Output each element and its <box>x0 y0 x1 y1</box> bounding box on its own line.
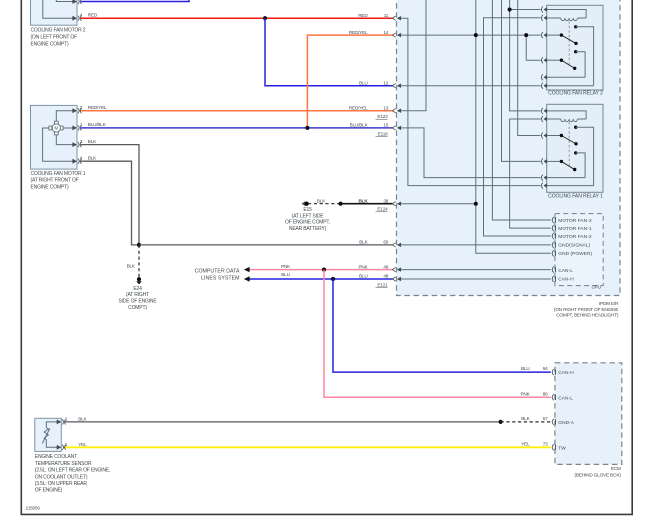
CPU pin name labels <box>558 218 592 283</box>
junction dot relay feeds <box>508 8 512 12</box>
svg-text:OF ENGINE COMPT,: OF ENGINE COMPT, <box>285 220 330 226</box>
IPDM pin 10 connector <box>392 126 401 130</box>
svg-text:3: 3 <box>80 139 83 144</box>
wire labels at ECM pins <box>520 366 548 446</box>
wire RED/YEL motor1 pin2 to IPDM pin 13 <box>81 110 393 112</box>
svg-text:COMPT): COMPT) <box>128 305 147 311</box>
junction dot on BLU/BLK wire <box>305 126 309 130</box>
wire BLU from motor2 pin3 up off page <box>81 0 189 2</box>
arrowhead computer data PNK <box>244 267 250 272</box>
svg-text:2: 2 <box>80 105 83 110</box>
svg-text:YEL: YEL <box>521 441 530 446</box>
svg-text:GND (POWER): GND (POWER) <box>558 251 592 257</box>
svg-text:(3.5L: ON UPPER REAR: (3.5L: ON UPPER REAR <box>35 481 88 487</box>
svg-text:215056: 215056 <box>26 506 41 511</box>
wire YEL sensor pin1 to ECM pin 73 <box>65 446 551 448</box>
ECM box (dashed) <box>555 363 622 478</box>
svg-text:BLK: BLK <box>359 240 368 245</box>
junction dot bus-pin14 <box>474 33 478 37</box>
svg-text:MOTOR FAN-3: MOTOR FAN-3 <box>558 218 592 224</box>
svg-text:60: 60 <box>383 240 388 245</box>
cooling fan relay 1 box <box>547 104 603 199</box>
relay1 contact return wires <box>547 178 594 186</box>
svg-text:PNK: PNK <box>281 264 291 269</box>
svg-text:RED: RED <box>358 13 368 18</box>
dashed BLK wire to ECM pin 67 <box>501 421 551 423</box>
cooling fan relay 2 box <box>547 5 603 96</box>
svg-text:BLU: BLU <box>521 366 530 371</box>
IPDM pin 12 connector <box>392 84 401 88</box>
svg-text:38: 38 <box>383 198 388 203</box>
ground E15 symbol <box>285 201 330 232</box>
internal wire relay2 coil to MOTOR FAN-2 <box>484 18 551 236</box>
junction dot BLU <box>331 277 335 281</box>
internal wire relay1 pin4 from top <box>502 0 541 161</box>
relay2 armature link dashed <box>568 21 570 66</box>
wire BLU branch to IPDM pin 12 <box>265 18 393 86</box>
svg-text:M: M <box>55 126 59 131</box>
svg-text:49: 49 <box>383 264 388 269</box>
motor1 pin 1 connector <box>72 125 81 130</box>
svg-text:RED/YEL: RED/YEL <box>349 30 368 35</box>
svg-text:(AT RIGHT: (AT RIGHT <box>126 292 149 298</box>
svg-text:RED: RED <box>88 13 98 18</box>
wire PNK computer data line to IPDM pin 49 <box>249 269 393 271</box>
junction dot bus-pin38 <box>474 202 478 206</box>
wire BLU/BLK motor1 pin1 to IPDM pin 10 <box>81 127 393 129</box>
svg-text:ENGINE COMPT): ENGINE COMPT) <box>31 42 69 48</box>
svg-text:94: 94 <box>543 366 548 371</box>
svg-text:MOTOR FAN-1: MOTOR FAN-1 <box>558 226 592 232</box>
svg-text:BLK: BLK <box>359 198 369 203</box>
svg-text:RED/YEL: RED/YEL <box>349 105 368 110</box>
svg-text:GND-A: GND-A <box>558 420 574 426</box>
wire BLK sensor pin2 to splice <box>65 421 501 423</box>
wire labels at motor pins <box>65 13 107 447</box>
svg-text:BLK: BLK <box>317 198 326 203</box>
IPDM pin 48 connector <box>392 277 401 281</box>
svg-text:(2.5L: ON LEFT REAR OF ENGINE,: (2.5L: ON LEFT REAR OF ENGINE, <box>35 468 110 474</box>
relay2 switch 2 <box>547 50 585 77</box>
computer data lines system label <box>195 268 240 281</box>
svg-text:BLK: BLK <box>78 416 87 421</box>
svg-text:COMPUTER DATA: COMPUTER DATA <box>195 268 240 274</box>
motor2 pin 3 connector <box>72 0 81 4</box>
dashed BLK wire from E15 to splice <box>308 203 341 205</box>
svg-text:COOLING FAN RELAY 1: COOLING FAN RELAY 1 <box>548 194 603 200</box>
svg-text:BLK: BLK <box>521 416 530 421</box>
svg-text:PNK: PNK <box>358 264 368 269</box>
svg-text:CAN-L: CAN-L <box>558 268 573 274</box>
IPDM E/R box (dashed) <box>397 0 621 318</box>
svg-text:(ON RIGHT FRONT OF ENGINE: (ON RIGHT FRONT OF ENGINE <box>554 307 618 312</box>
relay2 pin connectors <box>541 6 543 88</box>
svg-text:E121: E121 <box>377 283 388 288</box>
svg-text:E118: E118 <box>378 131 388 136</box>
cooling fan motor 1 box <box>31 105 86 190</box>
svg-text:GND(SIGNAL): GND(SIGNAL) <box>558 243 590 249</box>
relay1 switch 2 <box>547 151 585 177</box>
svg-text:TW: TW <box>558 445 566 451</box>
svg-text:48: 48 <box>383 274 388 279</box>
junction dot on RED wire <box>263 16 267 20</box>
svg-text:MOTOR FAN-2: MOTOR FAN-2 <box>558 234 592 240</box>
internal wire pin14 to relay2 pin3 <box>401 34 540 36</box>
svg-text:YEL: YEL <box>78 442 87 447</box>
relay1 coil circuit <box>547 111 586 122</box>
svg-text:SIDE OF ENGINE: SIDE OF ENGINE <box>118 299 157 305</box>
svg-text:(ON LEFT FRONT OF: (ON LEFT FRONT OF <box>31 35 78 41</box>
svg-text:ECM: ECM <box>611 466 621 471</box>
sensor pin 1 connector <box>57 445 66 450</box>
motor1 pin 2 connector <box>72 108 81 113</box>
svg-text:TEMPERATURE SENSOR: TEMPERATURE SENSOR <box>35 461 92 467</box>
svg-text:LINES SYSTEM: LINES SYSTEM <box>201 275 239 281</box>
CPU pin connectors <box>552 217 554 282</box>
wire RED motor2 pin4 to IPDM pin 11 <box>81 17 393 19</box>
svg-text:(BEHIND GLOVE BOX): (BEHIND GLOVE BOX) <box>575 472 622 477</box>
svg-text:ON COOLANT OUTLET): ON COOLANT OUTLET) <box>35 474 88 480</box>
IPDM pin 14 connector <box>392 33 401 37</box>
svg-text:86: 86 <box>543 391 548 396</box>
svg-text:IPDM E/R: IPDM E/R <box>599 301 619 306</box>
ground E24 symbol <box>118 277 157 311</box>
svg-text:CPU: CPU <box>591 285 601 290</box>
branch to relay2 pin1 <box>510 9 541 11</box>
wire BLK to IPDM pin 60 <box>139 244 393 246</box>
internal wire pin12 to relay2 pin6 <box>401 85 540 87</box>
wire PNK down to ECM CAN-L <box>324 270 551 398</box>
motor2 pin 4 connector <box>72 16 81 21</box>
dashed BLK wire to ground E24 <box>138 245 140 277</box>
junction dot relay2 pin4 branch <box>524 33 528 37</box>
motor M symbol M1 <box>49 121 63 135</box>
svg-text:CAN-H: CAN-H <box>558 370 574 376</box>
splice dot GND-A <box>499 420 503 424</box>
svg-text:10: 10 <box>383 123 388 128</box>
internal wire pin49 to CAN-L <box>401 269 551 271</box>
bold BLK wire to IPDM pin 38 <box>341 203 393 205</box>
junction dot BLK wires <box>137 243 141 247</box>
svg-text:COOLING FAN RELAY 2: COOLING FAN RELAY 2 <box>548 91 603 97</box>
sensor pin 2 connector <box>57 419 66 424</box>
internal wire pin11 to relay1 pin6 <box>401 18 540 185</box>
svg-text:CAN-L: CAN-L <box>558 395 573 401</box>
CPU box (dashed) <box>555 214 603 290</box>
svg-text:BLU/BLK: BLU/BLK <box>350 123 369 128</box>
relay2 coil circuit <box>547 10 586 21</box>
svg-text:(AT LEFT SIDE: (AT LEFT SIDE <box>292 213 325 219</box>
internal wire relay1 coil to MOTOR FAN-1 <box>510 119 551 228</box>
motor1 pin 3 connector <box>72 142 81 147</box>
ECM pin name labels <box>558 370 574 451</box>
svg-text:2: 2 <box>65 416 68 421</box>
IPDM pin 49 connector <box>392 267 401 271</box>
junction dot PNK <box>322 268 326 272</box>
svg-text:1: 1 <box>80 122 83 127</box>
motor1 pin 4 connector <box>72 159 81 164</box>
IPDM pin 38 connector <box>392 202 401 206</box>
connector codes E123 E118 E124 E121 underlined <box>377 114 388 287</box>
wire BLK motor1 pin3 down <box>81 145 139 245</box>
svg-text:(AT RIGHT FRONT OF: (AT RIGHT FRONT OF <box>31 178 79 184</box>
svg-text:ENGINE COOLANT: ENGINE COOLANT <box>35 454 77 460</box>
internal wire pin13 up off page <box>401 0 426 111</box>
svg-text:PNK: PNK <box>520 391 530 396</box>
thermistor symbol inside sensor <box>42 422 58 447</box>
svg-text:14: 14 <box>383 30 388 35</box>
internal wire feed to relay1 pin1 <box>510 0 541 111</box>
relay1 switch 1 <box>547 126 594 186</box>
wire BLU down to ECM CAN-H <box>333 279 551 372</box>
svg-text:COOLING FAN MOTOR 1: COOLING FAN MOTOR 1 <box>31 171 86 177</box>
svg-text:COOLING FAN MOTOR 2: COOLING FAN MOTOR 2 <box>31 28 86 34</box>
svg-text:BLU: BLU <box>359 274 368 279</box>
svg-text:E123: E123 <box>377 114 388 119</box>
internal wire MOTOR FAN-3 from top <box>492 0 550 220</box>
splice dot E15 <box>339 202 343 206</box>
IPDM pin 60 connector <box>392 243 401 247</box>
ECM pin connectors <box>552 369 554 450</box>
relay1 pin connectors <box>541 108 543 189</box>
svg-text:CAN-H: CAN-H <box>558 277 574 283</box>
svg-text:BLU: BLU <box>359 80 368 85</box>
svg-text:4: 4 <box>80 13 83 18</box>
internal wire relay1 pin3 from top <box>518 0 541 136</box>
wire RED/YEL IPDM pin 14 to junction on BLU/BLK <box>307 35 392 128</box>
internal wire pin38 to vertical bus <box>401 203 476 205</box>
svg-text:12: 12 <box>383 80 388 85</box>
internal wire relay2 pin4 branch <box>526 35 540 60</box>
IPDM pin 13 connector <box>392 109 401 113</box>
cooling fan motor 2 box <box>31 0 86 48</box>
svg-text:67: 67 <box>543 416 548 421</box>
wire BLK motor1 pin4 down to junction <box>81 161 139 245</box>
internal wire pin48 to CAN-H <box>401 278 551 280</box>
svg-text:4: 4 <box>80 156 83 161</box>
IPDM pin 11 connector <box>392 16 401 20</box>
svg-text:NEAR BATTERY): NEAR BATTERY) <box>289 226 327 232</box>
svg-text:OF ENGINE): OF ENGINE) <box>35 488 63 494</box>
internal vertical bus to GND POWER <box>476 0 551 253</box>
arrowhead computer data BLU <box>244 276 250 281</box>
svg-text:BLK: BLK <box>127 263 136 268</box>
svg-text:E15: E15 <box>303 207 312 213</box>
svg-text:BLK: BLK <box>88 139 97 144</box>
internal wire pin10 to relay1 pin5 <box>401 128 540 178</box>
svg-text:E24: E24 <box>133 286 142 292</box>
cooling fan motor 2 internal wires <box>43 0 74 18</box>
relay1 armature link dashed <box>568 122 570 167</box>
relay2 switch 1 <box>547 25 594 86</box>
relay2 contact return wires <box>547 77 594 86</box>
svg-text:ENGINE COMPT): ENGINE COMPT) <box>31 185 69 191</box>
svg-text:73: 73 <box>543 441 548 446</box>
svg-text:1: 1 <box>65 442 68 447</box>
svg-text:BLU/BLK: BLU/BLK <box>88 122 107 127</box>
svg-text:BLU: BLU <box>281 272 290 277</box>
svg-text:11: 11 <box>384 13 389 18</box>
svg-text:RED/YEL: RED/YEL <box>88 105 107 110</box>
engine coolant temperature sensor box <box>35 418 110 493</box>
svg-text:E124: E124 <box>377 207 388 212</box>
internal wire pin60 to GND SIGNAL <box>401 244 551 246</box>
svg-text:COMPT, BEHIND HEADLIGHT): COMPT, BEHIND HEADLIGHT) <box>556 313 619 318</box>
svg-text:13: 13 <box>383 105 388 110</box>
svg-text:BLK: BLK <box>88 156 97 161</box>
wire BLU computer data line to IPDM pin 48 <box>249 278 393 280</box>
cooling fan motor 1 internal wires <box>43 111 74 162</box>
wire labels at IPDM pins <box>281 13 389 279</box>
